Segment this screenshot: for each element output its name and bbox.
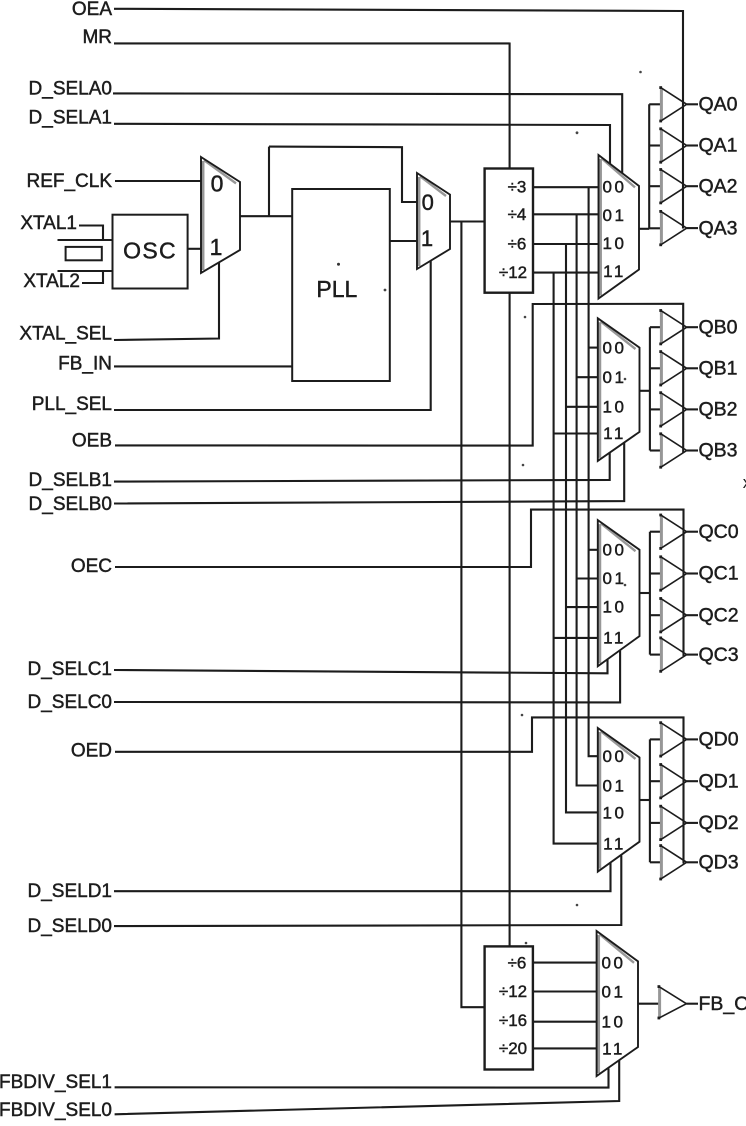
- mux B pin 01: [603, 368, 627, 387]
- wire D_SELA0: [113, 93, 622, 173]
- svg-text:1: 1: [210, 234, 223, 260]
- svg-text:D_SELD0: D_SELD0: [28, 916, 113, 937]
- buffer QB0: [659, 309, 686, 345]
- speck near divider: [384, 289, 387, 292]
- wire U2 output: [450, 220, 485, 222]
- svg-text:PLL: PLL: [316, 276, 357, 302]
- svg-text:10: 10: [603, 397, 627, 416]
- svg-text:QC1: QC1: [699, 563, 739, 585]
- input label FBDIV_SEL0: [0, 1100, 112, 1121]
- svg-text:QB2: QB2: [699, 399, 738, 421]
- svg-text:00: 00: [603, 178, 627, 197]
- svg-text:FBDIV_SEL1: FBDIV_SEL1: [0, 1072, 112, 1093]
- mux bank D: [598, 728, 640, 872]
- wire FB /20 output: [533, 1047, 597, 1049]
- wire OSC output: [188, 248, 201, 250]
- input label MR: [82, 27, 112, 48]
- mux D pin 10: [603, 803, 627, 822]
- DIV1 value /12: [499, 263, 527, 282]
- wire PLL bypass top: [269, 147, 417, 202]
- svg-text:11: 11: [602, 1039, 625, 1058]
- input label FB_IN: [58, 354, 112, 375]
- input label D_SELD0: [28, 916, 113, 937]
- wire mux C input 01 stub: [577, 577, 599, 579]
- wire FBDIV_SEL1: [115, 1068, 609, 1087]
- wire QB1 stub: [650, 367, 661, 369]
- svg-text:QA1: QA1: [699, 135, 738, 157]
- mux FB pin 10: [602, 1012, 626, 1031]
- svg-text:÷3: ÷3: [508, 178, 527, 197]
- wire /6 rail: [566, 244, 598, 812]
- output label QB3: [699, 440, 738, 462]
- output label FB_OUT: [699, 993, 746, 1015]
- svg-text:QA2: QA2: [699, 175, 738, 197]
- svg-text:QC0: QC0: [699, 521, 739, 543]
- svg-text:11: 11: [603, 262, 626, 281]
- svg-text:D_SELC1: D_SELC1: [28, 659, 113, 680]
- svg-text:00: 00: [603, 540, 627, 559]
- svg-text:÷6: ÷6: [508, 234, 527, 253]
- divider DIV1 box: [485, 169, 533, 293]
- buffer QC3: [659, 637, 686, 673]
- svg-text:FBDIV_SEL0: FBDIV_SEL0: [0, 1100, 112, 1121]
- wire D_SELD1: [114, 863, 611, 891]
- input label XTAL1: [20, 213, 77, 234]
- mux FB pin 00: [602, 953, 626, 972]
- output label QA3: [699, 217, 738, 239]
- output label QD0: [699, 729, 739, 751]
- speck right of D_SELA lines: [576, 131, 579, 134]
- svg-text:QD1: QD1: [699, 770, 739, 792]
- svg-text:D_SELA1: D_SELA1: [29, 108, 112, 129]
- wire QC1 stub: [650, 572, 661, 574]
- wire QB0 stub: [650, 326, 661, 328]
- wire QD3 output: [687, 861, 698, 863]
- speck bank B mid: [624, 378, 627, 381]
- buffer QA1: [659, 127, 686, 163]
- crystal X1 body: [66, 247, 102, 260]
- mux U1 pin 0: [211, 171, 224, 197]
- speck left of D_SELD0: [576, 904, 579, 907]
- mux bank B: [598, 318, 640, 461]
- mux A pin 01: [603, 206, 627, 225]
- svg-text:00: 00: [602, 953, 626, 972]
- wire PLL_SEL: [114, 261, 431, 410]
- svg-text:QB1: QB1: [699, 357, 738, 379]
- svg-text:OEA: OEA: [72, 0, 112, 20]
- wire QB2 output: [687, 408, 698, 410]
- wire QA0 output: [687, 103, 698, 105]
- input label D_SELB0: [29, 494, 112, 515]
- wire mux B input 11 stub: [554, 432, 599, 434]
- svg-text:÷4: ÷4: [508, 205, 527, 224]
- label OSC: [123, 238, 177, 264]
- wire OEA horizontal: [114, 9, 683, 11]
- buffer QB1: [659, 350, 686, 386]
- svg-text:QD2: QD2: [699, 812, 739, 834]
- input label PLL_SEL: [32, 394, 112, 415]
- wire mux C input 10 stub: [566, 606, 598, 608]
- DIV2 value /6: [508, 953, 527, 972]
- wire /3 output: [533, 186, 599, 188]
- input label REF_CLK: [26, 171, 112, 192]
- input label OEC: [71, 556, 112, 577]
- divider DIV2 box: [485, 946, 533, 1069]
- mux C pin 00: [603, 540, 627, 559]
- mux U2 pin 0: [422, 190, 434, 215]
- wire QA1 output: [687, 144, 698, 146]
- input label XTAL_SEL: [19, 324, 112, 345]
- wire XTAL_SEL: [114, 263, 219, 340]
- buffer QD2: [659, 805, 686, 841]
- svg-text:00: 00: [603, 747, 627, 766]
- svg-text:01: 01: [603, 569, 627, 588]
- wire QD0 output: [687, 738, 698, 740]
- svg-text:D_SELB0: D_SELB0: [29, 494, 112, 515]
- wire QD3 stub: [650, 861, 661, 863]
- output label QB2: [699, 399, 738, 421]
- speck near FB mux: [525, 942, 528, 945]
- output label QA1: [699, 135, 738, 157]
- wire FB_IN: [114, 365, 292, 367]
- svg-text:XTAL2: XTAL2: [23, 271, 80, 292]
- buffer QB2: [659, 391, 686, 427]
- wire /4 output: [533, 213, 599, 215]
- svg-text:OEB: OEB: [72, 430, 112, 451]
- buffer QD0: [659, 721, 686, 757]
- speck near U1: [337, 263, 340, 266]
- output label QA0: [699, 93, 738, 115]
- wire QD2 output: [687, 822, 698, 824]
- svg-text:D_SELA0: D_SELA0: [29, 78, 112, 99]
- mux FB: [597, 931, 638, 1076]
- svg-text:QC3: QC3: [699, 644, 739, 666]
- wire bank B buffer column: [649, 327, 651, 450]
- svg-text:FB_OUT: FB_OUT: [699, 993, 746, 1015]
- svg-text:OED: OED: [71, 740, 112, 761]
- mux B pin 11: [603, 424, 626, 443]
- wire MR vertical to divider: [509, 43, 511, 169]
- wire mux D output: [640, 799, 650, 801]
- speck bank D top: [521, 714, 524, 717]
- svg-text:QD0: QD0: [699, 729, 739, 751]
- wire /3 rail: [589, 187, 599, 756]
- output label QD3: [699, 851, 739, 873]
- mux U2 PLL select: [417, 173, 450, 269]
- svg-text:01: 01: [603, 776, 627, 795]
- mux C pin 11: [603, 628, 626, 647]
- svg-text:QD3: QD3: [699, 851, 739, 873]
- DIV1 value /6: [508, 234, 527, 253]
- svg-text:D_SELC0: D_SELC0: [28, 692, 113, 713]
- input label OEB: [72, 430, 112, 451]
- DIV2 value /16: [499, 1011, 527, 1030]
- crystal X1 top plate: [58, 239, 113, 241]
- wire MR horizontal: [114, 42, 510, 44]
- wire /12 output: [533, 272, 599, 274]
- svg-text:QB0: QB0: [699, 316, 738, 338]
- svg-text:10: 10: [603, 803, 627, 822]
- svg-text:11: 11: [603, 834, 626, 853]
- mux D pin 00: [603, 747, 627, 766]
- wire FB /6 output: [533, 962, 597, 964]
- output label QC1: [699, 563, 739, 585]
- input label OED: [71, 740, 112, 761]
- buffer QB3: [659, 432, 686, 468]
- wire bank C buffer column: [649, 532, 651, 655]
- wire QA2 output: [687, 185, 698, 187]
- wire QA1 stub: [649, 144, 661, 146]
- mux bank A: [599, 155, 640, 299]
- wire QC2 stub: [650, 614, 661, 616]
- wire OEA vertical (enable rail bank A): [682, 10, 684, 229]
- wire /4 rail: [577, 214, 599, 785]
- wire QD1 stub: [650, 780, 661, 782]
- buffer FB: [658, 985, 687, 1019]
- wire QC1 output: [687, 572, 698, 574]
- label PLL: [316, 276, 357, 302]
- DIV2 value /20: [499, 1039, 527, 1058]
- clipped character at right edge: [743, 473, 746, 492]
- wire mux B input 00 stub: [589, 347, 599, 349]
- svg-text:QC2: QC2: [699, 604, 739, 626]
- svg-text:XTAL_SEL: XTAL_SEL: [19, 324, 112, 345]
- svg-text:0: 0: [422, 190, 434, 215]
- PLL box: [292, 189, 390, 381]
- output label QD2: [699, 812, 739, 834]
- crystal X1 bottom plate: [58, 270, 113, 272]
- input label D_SELB1: [29, 470, 112, 491]
- mux D pin 01: [603, 776, 627, 795]
- wire bank D buffer column: [649, 739, 651, 862]
- mux B pin 10: [603, 397, 627, 416]
- DIV2 value /12: [499, 982, 527, 1001]
- wire QB3 output: [687, 449, 698, 451]
- buffer QC0: [659, 514, 686, 550]
- input label XTAL2: [23, 271, 80, 292]
- svg-text:MR: MR: [82, 27, 112, 48]
- wire D_SELC1: [114, 659, 608, 673]
- wire QA0 stub: [649, 103, 661, 105]
- wire OEB: [115, 304, 683, 453]
- input label D_SELD1: [28, 881, 113, 902]
- wire D_SELA1: [114, 124, 610, 164]
- buffer QC2: [659, 597, 686, 633]
- speck bank C mid: [624, 584, 627, 587]
- mux bank C: [598, 520, 640, 666]
- output label QC0: [699, 521, 739, 543]
- wire mux FB output: [638, 1003, 659, 1005]
- svg-text:REF_CLK: REF_CLK: [26, 171, 112, 192]
- oscillator OSC box: [113, 215, 188, 289]
- wire QC0 output: [687, 531, 698, 533]
- input label FBDIV_SEL1: [0, 1072, 112, 1093]
- wire mux B input 01 stub: [577, 376, 599, 378]
- svg-text:QA3: QA3: [699, 217, 738, 239]
- wire QC2 output: [687, 614, 698, 616]
- svg-text:D_SELB1: D_SELB1: [29, 470, 112, 491]
- svg-text:1: 1: [421, 226, 433, 251]
- wire mux C output: [640, 592, 650, 594]
- mux A pin 00: [603, 178, 627, 197]
- mux FB pin 01: [602, 982, 626, 1001]
- output label QA2: [699, 175, 738, 197]
- mux B pin 00: [603, 338, 627, 357]
- wire D_SELD0: [114, 855, 621, 926]
- output label QD1: [699, 770, 739, 792]
- svg-text:00: 00: [603, 338, 627, 357]
- wire QB0 output: [687, 326, 698, 328]
- wire XTAL1: [79, 226, 103, 241]
- DIV1 value /4: [508, 205, 527, 224]
- buffer QD3: [659, 844, 686, 880]
- speck above bank A: [639, 71, 642, 74]
- speck bank B top: [524, 316, 527, 319]
- wire FB /16 output: [533, 1021, 597, 1023]
- wire XTAL2: [82, 271, 103, 283]
- svg-text:01: 01: [603, 368, 627, 387]
- svg-text:÷20: ÷20: [499, 1039, 527, 1058]
- mux U1 pin 1: [210, 234, 223, 260]
- output label QC3: [699, 644, 739, 666]
- buffer QA3: [659, 210, 686, 246]
- DIV1 value /3: [508, 178, 527, 197]
- wire QC3 stub: [650, 654, 661, 656]
- svg-text:01: 01: [602, 982, 626, 1001]
- input label D_SELA1: [29, 108, 112, 129]
- buffer QA2: [659, 168, 686, 204]
- svg-text:10: 10: [603, 234, 627, 253]
- input label D_SELA0: [29, 78, 112, 99]
- wire mux B output: [640, 390, 650, 392]
- wire MR vertical divider to FB divider: [509, 293, 511, 947]
- wire mux C input 00 stub: [589, 549, 599, 551]
- output label QC2: [699, 604, 739, 626]
- wire /12 rail: [554, 273, 599, 844]
- buffer QA0: [659, 86, 686, 122]
- mux C pin 10: [603, 598, 627, 617]
- output label QB0: [699, 316, 738, 338]
- wire QD1 output: [687, 780, 698, 782]
- mux U2 pin 1: [421, 226, 433, 251]
- mux A pin 10: [603, 234, 627, 253]
- wire mux C input 11 stub: [554, 637, 599, 639]
- wire QB3 stub: [650, 449, 661, 451]
- wire bank A buffer column: [648, 104, 650, 229]
- mux A pin 11: [603, 262, 626, 281]
- svg-text:QB3: QB3: [699, 440, 738, 462]
- node PLL bypass junction: [268, 147, 270, 217]
- output label QB1: [699, 357, 738, 379]
- wire mux A output: [639, 228, 649, 230]
- wire QB1 output: [687, 367, 698, 369]
- wire FBDIV_SEL0: [115, 1060, 620, 1114]
- wire D_SELB0: [114, 442, 624, 503]
- wire QD2 stub: [650, 822, 661, 824]
- wire mux B input 10 stub: [566, 406, 598, 408]
- svg-text:10: 10: [603, 598, 627, 617]
- wire QA3 output: [687, 227, 698, 229]
- wire /6 output: [533, 243, 599, 245]
- svg-text:10: 10: [602, 1012, 626, 1031]
- svg-text:FB_IN: FB_IN: [58, 354, 112, 375]
- wire FB_OUT output: [686, 1003, 698, 1005]
- buffer QC1: [659, 555, 686, 591]
- svg-text:D_SELD1: D_SELD1: [28, 881, 113, 902]
- wire D_SELC0: [114, 651, 620, 703]
- svg-text:11: 11: [603, 424, 626, 443]
- wire QC3 output: [687, 654, 698, 656]
- svg-text:÷12: ÷12: [499, 982, 527, 1001]
- wire PLL output: [390, 240, 417, 242]
- svg-text:÷12: ÷12: [499, 263, 527, 282]
- svg-text:01: 01: [603, 206, 627, 225]
- mux U1 reference select: [201, 157, 240, 273]
- input label D_SELC1: [28, 659, 113, 680]
- wire QA3 stub: [649, 227, 661, 229]
- svg-text:OSC: OSC: [123, 238, 177, 264]
- svg-text:11: 11: [603, 628, 626, 647]
- svg-text:PLL_SEL: PLL_SEL: [32, 394, 112, 415]
- wire undivided clock rail: [461, 222, 484, 1008]
- wire QB2 stub: [650, 408, 661, 410]
- wire D_SELB1: [114, 452, 610, 481]
- wire QC0 stub: [650, 531, 661, 533]
- svg-text:0: 0: [211, 171, 224, 197]
- speck bank C top: [522, 464, 525, 467]
- wire QD0 stub: [650, 738, 661, 740]
- wire REF_CLK: [115, 180, 201, 182]
- mux C pin 01: [603, 569, 627, 588]
- svg-text:QA0: QA0: [699, 93, 738, 115]
- wire FB /12 output: [533, 990, 597, 992]
- svg-text:÷16: ÷16: [499, 1011, 527, 1030]
- wire U1 output to PLL: [240, 215, 292, 217]
- svg-text:XTAL1: XTAL1: [20, 213, 77, 234]
- buffer QD1: [659, 763, 686, 799]
- svg-text:÷6: ÷6: [508, 953, 527, 972]
- wire QA2 stub: [649, 185, 661, 187]
- input label OEA: [72, 0, 112, 20]
- mux FB pin 11: [602, 1039, 625, 1058]
- svg-text:OEC: OEC: [71, 556, 112, 577]
- wire OEC: [115, 510, 684, 656]
- mux D pin 11: [603, 834, 626, 853]
- wire OED: [115, 717, 684, 863]
- input label D_SELC0: [28, 692, 113, 713]
